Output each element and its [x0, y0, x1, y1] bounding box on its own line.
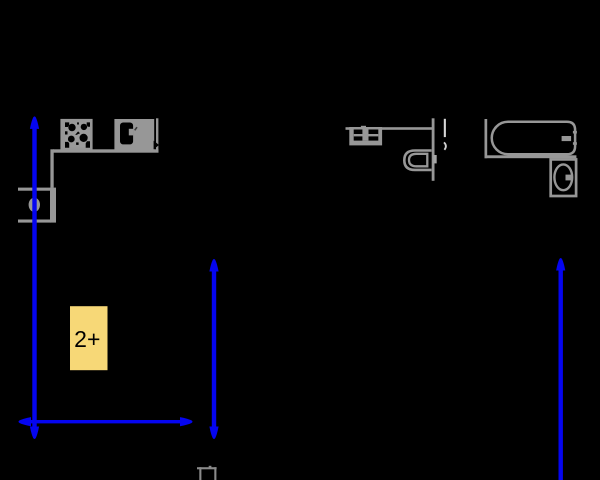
- kitchen counter bar: [53, 149, 159, 152]
- kitchen counter left edge: [50, 149, 53, 188]
- dimension arrow middle vertical: [209, 259, 218, 439]
- door swing mark on end panel: [154, 141, 159, 150]
- door leaf (light): [444, 119, 446, 137]
- bathroom wall horizontal (washbasin wall): [346, 127, 433, 130]
- bathtub: [492, 122, 577, 155]
- stove: [60, 119, 92, 150]
- door swing arc: [444, 142, 446, 149]
- bath bottom wall: [485, 155, 577, 158]
- bath left wall: [485, 119, 488, 158]
- room label 2+: [70, 306, 108, 370]
- washbasin top: [351, 126, 381, 144]
- counter right end panel: [156, 118, 158, 151]
- dimension arrow horizontal: [19, 417, 193, 426]
- svg-text:2+: 2+: [74, 326, 100, 352]
- bathroom wall vertical: [432, 118, 435, 181]
- dimension arrow right vertical: [556, 258, 565, 480]
- washbasin bottom right: [551, 159, 576, 196]
- dimension arrow left vertical: [30, 116, 39, 439]
- toilet: [404, 151, 436, 170]
- kitchen sink unit: [114, 119, 154, 150]
- bottom door frame: [197, 466, 217, 480]
- lower kitchen box (sink cabinet): [18, 188, 56, 223]
